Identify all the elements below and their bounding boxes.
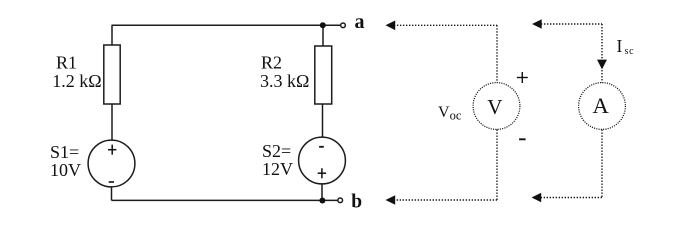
ammeter loop arrowhead to terminal b — [532, 193, 542, 203]
resistor R2 — [315, 46, 332, 104]
voltmeter V1 dotted circle — [473, 83, 520, 130]
svg-text:R1: R1 — [56, 53, 77, 73]
svg-text:V: V — [487, 95, 502, 119]
svg-text:12V: 12V — [262, 159, 293, 179]
S1 minus polarity mark — [109, 181, 114, 183]
svg-text:A: A — [592, 93, 609, 118]
dotted lead bottom of ammeter loop — [541, 197, 602, 199]
junction dot node a — [320, 22, 326, 28]
wire left branch top — [111, 25, 113, 46]
ammeter A1 dotted circle — [579, 83, 626, 130]
resistor R1 — [104, 45, 120, 104]
svg-text:b: b — [351, 191, 362, 212]
dotted lead top of voltmeter loop — [394, 24, 497, 26]
svg-text:1.2 kΩ: 1.2 kΩ — [52, 71, 101, 91]
junction dot node b — [319, 198, 325, 204]
dotted lead top of ammeter loop — [541, 23, 602, 25]
source S1 — [88, 140, 135, 187]
voltmeter minus polarity mark — [519, 138, 526, 140]
dotted lead voltmeter lower vertical — [496, 130, 498, 201]
voltmeter plus polarity mark — [517, 72, 528, 83]
wire bottom rail node b — [112, 199, 338, 201]
wire R2 to S2 — [322, 104, 324, 138]
wire R1 to S1 — [111, 104, 113, 141]
wire S1 to bottom rail — [111, 187, 113, 201]
source S2 — [299, 137, 346, 184]
dotted lead ammeter lower vertical — [601, 130, 603, 198]
Isc current direction arrowhead — [597, 60, 607, 70]
svg-text:a: a — [355, 11, 365, 33]
dotted lead ammeter upper vertical — [601, 24, 603, 59]
terminal b open circle — [338, 198, 343, 203]
svg-text:S2=: S2= — [262, 141, 291, 161]
S1 plus polarity mark — [108, 145, 116, 155]
voltmeter loop arrowhead to terminal b — [386, 195, 396, 205]
dotted lead voltmeter upper vertical — [496, 25, 498, 82]
svg-text:3.3 kΩ: 3.3 kΩ — [260, 71, 309, 91]
terminal a open circle — [341, 23, 346, 28]
svg-text:S1=: S1= — [50, 142, 79, 162]
dotted lead ammeter arrow to circle — [601, 70, 603, 83]
wire right branch top — [322, 25, 324, 46]
S2 plus polarity mark — [318, 168, 326, 178]
svg-text:R2: R2 — [261, 53, 282, 73]
svg-text:10V: 10V — [50, 160, 81, 180]
ammeter loop arrowhead to terminal a — [532, 19, 542, 29]
dotted lead bottom of voltmeter loop — [394, 199, 497, 201]
S2 minus polarity mark — [319, 146, 324, 148]
voltmeter loop arrowhead to terminal a — [386, 21, 396, 31]
wire top rail node a — [112, 24, 341, 26]
wire S2 to bottom rail — [321, 184, 323, 201]
